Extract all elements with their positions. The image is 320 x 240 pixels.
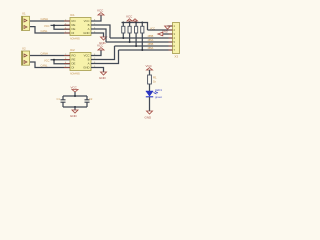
svg-text:CANH: CANH <box>41 17 48 21</box>
svg-text:VCC: VCC <box>126 15 133 19</box>
svg-text:X1: X1 <box>22 12 26 16</box>
junction rail R3 <box>135 22 137 24</box>
bus wire L1 <box>110 37 173 39</box>
svg-text:DI: DI <box>72 31 75 35</box>
pin stubs IC2 right <box>91 56 97 68</box>
svg-text:VCC: VCC <box>71 86 78 90</box>
VCC rail for bias resistors <box>122 23 148 31</box>
capacitor C2 <box>85 96 93 107</box>
svg-text:green: green <box>155 95 163 99</box>
svg-text:IC1: IC1 <box>70 13 75 17</box>
svg-text:ADM485: ADM485 <box>70 72 80 75</box>
supply VCC decoupling <box>71 86 79 97</box>
svg-text:CANH: CANH <box>41 51 48 55</box>
wire decoupling top rail <box>63 95 87 97</box>
supply VCC rail <box>126 15 138 23</box>
svg-text:VCC: VCC <box>44 24 50 28</box>
wire VCC rail to connector pin2 <box>148 29 173 31</box>
capacitor C1 <box>57 96 66 107</box>
junction row1 tie <box>53 24 55 26</box>
connector X3 <box>173 23 180 59</box>
pin numbers IC1 <box>65 19 96 33</box>
svg-text:GND: GND <box>83 31 89 35</box>
wire RE-DE tie row2 <box>51 60 71 64</box>
junction decoupling top <box>74 95 76 97</box>
wire connector pin3 stub <box>163 33 173 35</box>
svg-text:ADM485: ADM485 <box>70 37 80 40</box>
connector X2 <box>22 47 30 66</box>
wire IC2 VCC pin to VCC symbol <box>91 50 101 56</box>
resistor R4 <box>141 23 144 51</box>
junction R4 L4 <box>141 49 143 51</box>
junction R1 L1 <box>122 37 124 39</box>
pin stubs X3 <box>169 26 173 50</box>
svg-text:GND: GND <box>70 114 78 118</box>
junction row2 tie <box>53 59 55 61</box>
wire IC1 VCC pin to VCC symbol <box>91 15 101 21</box>
junction rail R1 <box>122 22 124 24</box>
bus wire L4 <box>119 49 173 51</box>
resistor R2 <box>128 23 131 43</box>
svg-text:485B: 485B <box>148 35 154 38</box>
IC U2 <box>70 48 91 75</box>
resistor R5 <box>148 75 157 84</box>
wire decoupling bottom rail <box>63 106 87 108</box>
wire LED to GND <box>149 97 151 111</box>
svg-text:C1: C1 <box>57 97 61 101</box>
pin stubs IC2 left <box>64 56 70 68</box>
pin stubs IC1 right <box>91 21 97 33</box>
svg-text:X2: X2 <box>22 47 26 51</box>
bus wire L3 <box>115 45 173 47</box>
svg-text:GND: GND <box>145 116 153 120</box>
junction R2 L2 <box>129 41 131 43</box>
svg-text:VCC: VCC <box>146 64 153 68</box>
wire CANL2 X2 pin2 to IC2 DI <box>30 62 70 68</box>
svg-text:CANL: CANL <box>41 29 48 33</box>
supply VCC LED chain <box>146 64 153 70</box>
svg-text:LED1: LED1 <box>155 88 162 92</box>
wire connector pin1 to GND <box>168 25 173 27</box>
svg-text:DI: DI <box>72 66 75 70</box>
wire R5 to LED <box>149 84 151 91</box>
svg-text:VCC: VCC <box>44 58 50 62</box>
junction R3 L3 <box>135 45 137 47</box>
wire VCC to R5 <box>149 70 151 75</box>
svg-text:VCC: VCC <box>97 9 104 13</box>
wire B1 IC1 to bus L1 <box>91 25 110 38</box>
wire IC2 GND pin to GND symbol <box>91 68 104 73</box>
LED LED1 <box>146 88 163 99</box>
svg-text:C2: C2 <box>89 97 93 101</box>
svg-text:CANL: CANL <box>41 64 48 68</box>
wire A1 IC1 to bus L2 <box>91 29 106 42</box>
junction decoupling bottom <box>74 106 76 108</box>
ground GND IC2 <box>99 72 107 80</box>
pin numbers IC2 <box>65 54 96 68</box>
svg-text:GND: GND <box>99 76 107 80</box>
svg-text:IC2: IC2 <box>70 48 75 52</box>
resistor R1 <box>122 23 125 39</box>
connector X1 <box>22 12 30 31</box>
wire CANH2 X2 pin1 to IC2 RO <box>30 55 70 57</box>
resistor R3 <box>135 23 138 47</box>
ground GND IC1 <box>99 37 107 45</box>
wire RE-DE tie row1 <box>51 25 71 29</box>
ground GND decoupling <box>70 107 78 118</box>
supply VCC IC1 <box>97 9 104 16</box>
ground GND connector <box>162 26 170 34</box>
svg-text:485B: 485B <box>148 43 154 46</box>
wire A2 IC2 to bus L4 <box>91 50 119 64</box>
wire CANH1 X1 pin1 to IC1 RO <box>30 20 70 22</box>
pin stubs IC1 left <box>64 21 70 33</box>
wire CANL1 X1 pin2 to IC1 DI <box>30 27 70 33</box>
svg-text:X3: X3 <box>174 55 178 59</box>
junction rail R2 <box>129 22 131 24</box>
svg-text:VCC: VCC <box>97 44 104 48</box>
svg-text:485A: 485A <box>148 47 154 50</box>
junction rail R4 <box>141 22 143 24</box>
svg-text:485A: 485A <box>148 39 154 42</box>
ground GND LED <box>145 111 153 120</box>
IC U1 <box>70 13 91 40</box>
wire IC1 GND pin to GND symbol <box>91 33 104 37</box>
wire B2 IC2 to bus L3 <box>91 46 115 60</box>
svg-text:GND: GND <box>83 66 89 70</box>
supply VCC IC2 <box>97 44 104 51</box>
bus wire L2 <box>106 41 173 43</box>
supply arrow connector pin3 <box>158 32 163 36</box>
